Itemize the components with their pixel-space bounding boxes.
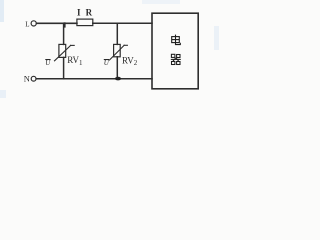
node: RV2 bottom junction dot: [115, 77, 121, 81]
varistor RV1 diagonal: [55, 45, 71, 60]
wire: top wire down to RV1: [63, 23, 65, 44]
label dian (电) glyph: [172, 35, 181, 45]
wire: N terminal to appliance box: [36, 78, 152, 80]
wire: RV2 down to bottom wire: [116, 57, 118, 79]
terminal N circle: [31, 76, 36, 81]
varistor RV2 body: [114, 44, 121, 56]
varistor RV2 diagonal: [110, 45, 125, 60]
appliance box outline: [152, 13, 198, 89]
svg-text:I: I: [77, 7, 81, 17]
svg-text:L: L: [25, 20, 29, 28]
wire: L terminal to resistor R: [37, 22, 77, 24]
node: RV1 top junction: [64, 23, 66, 26]
scan tint left edge: [0, 0, 4, 22]
wire: junction RV2 top: [116, 23, 118, 44]
scan tint bottom-left: [0, 90, 6, 98]
svg-text:R: R: [86, 7, 93, 17]
svg-text:N: N: [24, 74, 30, 84]
varistor RV2 diagonal top stub: [124, 44, 127, 46]
resistor R body: [77, 19, 93, 26]
overline of U RV2: [104, 59, 109, 61]
paper background: [0, 0, 219, 98]
wire: RV1 down to bottom wire: [63, 57, 65, 78]
varistor RV1 body: [59, 44, 66, 57]
varistor RV1 diagonal top stub: [71, 44, 75, 46]
scan tint right streak: [214, 26, 219, 50]
terminal L circle: [31, 21, 36, 26]
label qi (器) glyph: [171, 54, 181, 64]
scan tint top streak: [142, 0, 180, 4]
overline of U RV1: [45, 59, 50, 61]
wire: resistor R to appliance box: [93, 22, 152, 24]
